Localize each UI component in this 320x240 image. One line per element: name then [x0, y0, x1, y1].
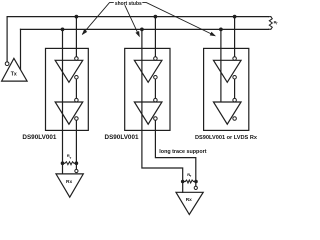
svg-text:long trace support: long trace support: [159, 149, 206, 155]
svg-text:T: T: [276, 21, 278, 25]
svg-text:Tx: Tx: [11, 72, 17, 78]
svg-text:Rx: Rx: [66, 179, 72, 185]
svg-text:T: T: [69, 156, 71, 160]
svg-text:DS90LV001: DS90LV001: [105, 135, 140, 141]
svg-text:DS90LV001 or LVDS Rx: DS90LV001 or LVDS Rx: [195, 135, 258, 141]
svg-text:DS90LV001: DS90LV001: [22, 135, 57, 141]
svg-text:T: T: [189, 174, 191, 178]
svg-text:Rx: Rx: [186, 197, 192, 203]
svg-text:short stubs: short stubs: [115, 1, 142, 7]
